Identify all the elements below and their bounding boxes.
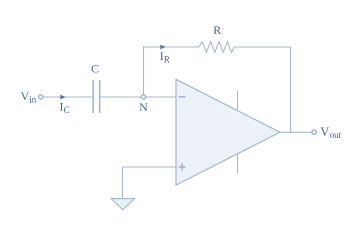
- svg-text:C: C: [64, 105, 70, 115]
- svg-text:V: V: [320, 125, 329, 139]
- svg-text:R: R: [213, 23, 221, 37]
- svg-text:V: V: [21, 89, 30, 103]
- svg-text:out: out: [330, 130, 342, 140]
- svg-text:R: R: [164, 54, 170, 64]
- svg-text:N: N: [139, 100, 148, 114]
- svg-text:C: C: [91, 62, 99, 76]
- svg-text:in: in: [29, 94, 37, 104]
